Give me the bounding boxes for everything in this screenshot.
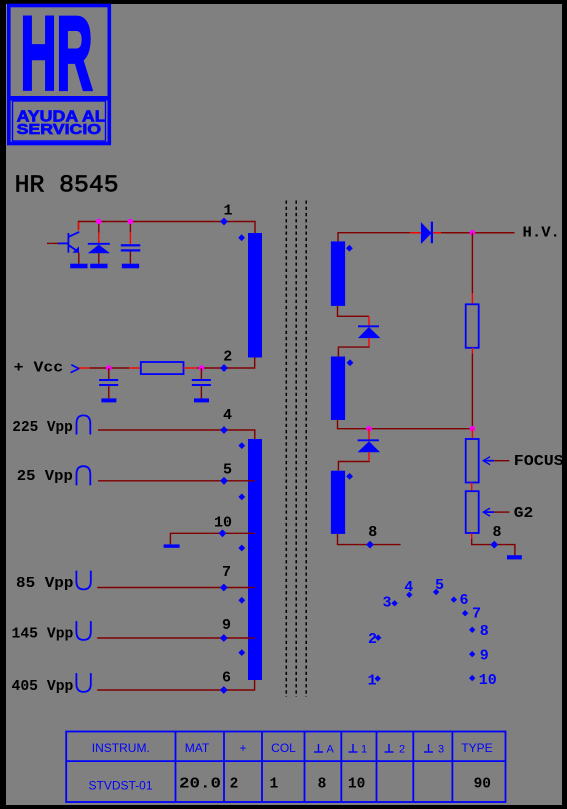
wire tap overlaps on W2	[248, 481, 255, 638]
svg-text:225 Vpp: 225 Vpp	[12, 420, 73, 436]
wire tap pin9	[97, 637, 255, 639]
wire W3 bottom to D3	[338, 306, 370, 326]
ground under Q1	[70, 264, 87, 269]
table header gnd 3	[424, 743, 444, 755]
svg-text:1: 1	[367, 672, 376, 689]
transistor Q1	[47, 232, 79, 264]
pinout pin 7	[462, 605, 481, 622]
table header MAT	[185, 741, 210, 755]
phase dot W5	[346, 473, 353, 480]
svg-text:20.0: 20.0	[179, 777, 221, 793]
junction dot vcc 1	[106, 365, 112, 371]
table header gnd 2	[385, 743, 406, 755]
svg-text:MAT: MAT	[185, 741, 210, 755]
label + Vcc	[14, 360, 64, 376]
table data 8	[318, 777, 327, 793]
table data 10	[348, 777, 365, 793]
svg-text:4: 4	[404, 579, 413, 596]
svg-text:1: 1	[269, 777, 278, 793]
table header INSTRUM.	[92, 741, 150, 755]
resistor R2 bleeder	[466, 304, 479, 348]
phase dots W2	[238, 442, 245, 656]
svg-text:8: 8	[368, 524, 377, 541]
diode D2 HV	[421, 222, 432, 245]
table grid	[66, 732, 505, 803]
focus arrow	[483, 457, 509, 465]
svg-text:COL: COL	[271, 741, 296, 755]
wire to junction	[197, 367, 201, 369]
pinout pin 5	[433, 577, 444, 595]
svg-text:2: 2	[399, 743, 405, 755]
table header gnd A	[314, 743, 335, 755]
label 85 Vpp	[16, 576, 74, 592]
node pin 4	[220, 407, 232, 434]
node pin 8 right	[490, 524, 501, 549]
resistor R3 focus	[466, 439, 479, 483]
wire D3 to W4 top	[338, 338, 369, 356]
winding W2 secondary left	[248, 439, 262, 680]
svg-text:2: 2	[230, 777, 239, 793]
svg-text:10: 10	[479, 672, 497, 689]
node pin 7	[220, 564, 231, 591]
svg-text:25 Vpp: 25 Vpp	[17, 469, 73, 485]
svg-text:STVDST-01: STVDST-01	[88, 779, 152, 793]
phase dot W3	[346, 245, 353, 252]
wire red after resistor	[184, 367, 198, 369]
logo HR box	[7, 6, 111, 144]
svg-text:145 Vpp: 145 Vpp	[12, 627, 74, 643]
node pin 2	[220, 348, 232, 372]
svg-text:TYPE: TYPE	[461, 741, 492, 755]
table header plus	[239, 741, 246, 755]
table header gnd 1	[349, 743, 368, 755]
waveform U 6	[76, 673, 90, 692]
wire vcc red segment	[79, 367, 90, 369]
logo text SERVICIO	[17, 121, 102, 138]
svg-text:HR 8545: HR 8545	[15, 173, 119, 200]
label 225 Vpp	[12, 420, 73, 436]
svg-text:5: 5	[435, 577, 444, 594]
wire tap pin6	[97, 680, 254, 690]
wire red before HV diode	[410, 232, 421, 234]
svg-text:1: 1	[361, 743, 367, 755]
wire R3 to R4	[471, 483, 473, 492]
termination bar pin10	[164, 544, 180, 547]
junction dot vcc 2	[199, 365, 205, 371]
svg-text:2: 2	[368, 631, 377, 648]
svg-text:8: 8	[318, 777, 327, 793]
svg-text:H.V.: H.V.	[523, 225, 560, 241]
wire tap pin5	[98, 480, 255, 482]
svg-text:SERVICIO: SERVICIO	[17, 121, 102, 138]
svg-text:9: 9	[222, 617, 231, 634]
wire W3 top to diode	[338, 233, 515, 242]
core dashed lines	[286, 201, 306, 698]
svg-text:8: 8	[480, 623, 489, 640]
winding W1 primary	[248, 233, 262, 358]
waveform hump 5	[77, 466, 91, 485]
svg-text:90: 90	[474, 777, 491, 793]
svg-text:9: 9	[480, 648, 489, 665]
node pin 9	[220, 617, 231, 642]
svg-text:4: 4	[223, 407, 232, 424]
pinout pin 9	[469, 648, 489, 665]
label 25 Vpp	[17, 469, 73, 485]
label H.V.	[523, 225, 560, 241]
svg-text:HR: HR	[21, 0, 93, 112]
svg-text:G2: G2	[514, 506, 534, 522]
wire red after HV diode	[433, 232, 441, 234]
wire red before resistor	[129, 367, 141, 369]
svg-text:A: A	[327, 743, 335, 755]
wire R4 to pin8 right and ground	[472, 533, 515, 555]
table data 1	[269, 777, 278, 793]
node pin 6	[220, 670, 231, 694]
node pin 5	[220, 461, 232, 484]
logo text AYUDA AL	[17, 108, 106, 125]
pinout pin 8	[469, 623, 489, 640]
title HR 8545	[15, 173, 119, 200]
wire red junction to R3	[471, 429, 473, 439]
svg-text:405 Vpp: 405 Vpp	[12, 679, 74, 695]
wire pin2 from W1 bottom	[201, 358, 254, 369]
phase dot W4	[347, 359, 354, 366]
logo HR letters	[21, 0, 93, 112]
table data 2	[230, 777, 239, 793]
ground under C3	[194, 398, 209, 402]
pinout pin 4	[404, 579, 413, 598]
diode D1	[88, 244, 110, 264]
wire HV down to R2	[471, 233, 473, 305]
svg-text:FOCUS: FOCUS	[514, 454, 564, 470]
input chevron	[71, 365, 79, 373]
svg-text:7: 7	[222, 564, 231, 581]
label 405 Vpp	[12, 679, 74, 695]
svg-text:INSTRUM.: INSTRUM.	[92, 741, 150, 755]
wire red collector drop	[78, 222, 80, 231]
svg-text:3: 3	[438, 743, 444, 755]
svg-text:1: 1	[223, 203, 232, 220]
capacitor C3	[192, 368, 211, 398]
svg-text:3: 3	[382, 595, 391, 612]
junction dot 2	[128, 219, 134, 225]
svg-text:10: 10	[214, 514, 232, 531]
junction dot divider right	[470, 426, 476, 432]
node pin 1	[220, 203, 232, 226]
wire D4 to W5 top	[338, 452, 369, 471]
svg-text:+: +	[239, 741, 246, 755]
winding W5 HV bottom	[331, 471, 345, 534]
wire vcc to resistor	[89, 367, 129, 369]
label FOCUS	[514, 454, 564, 470]
svg-text:+ Vcc: + Vcc	[14, 360, 64, 376]
junction dot HV	[470, 230, 476, 236]
table data 20.0	[179, 777, 221, 793]
capacitor C1	[121, 244, 141, 264]
table data STVDST-01	[88, 779, 152, 793]
table header COL	[271, 741, 296, 755]
pinout pin 10	[469, 672, 497, 689]
wire to HV junction	[445, 232, 515, 234]
svg-text:85 Vpp: 85 Vpp	[16, 576, 74, 592]
wire tap pin7	[97, 587, 255, 589]
label G2	[514, 506, 534, 522]
diode D4	[358, 440, 380, 452]
ground under D1	[90, 264, 107, 269]
svg-text:6: 6	[222, 670, 231, 687]
wire W4 bottom to junction row	[338, 420, 473, 429]
ground right	[507, 555, 522, 559]
resistor R4 g2	[466, 491, 479, 533]
capacitor C2	[99, 368, 118, 398]
ground under C2	[101, 398, 116, 402]
resistor R1 vcc	[141, 362, 184, 374]
pinout pin 2	[368, 631, 381, 648]
waveform hump 4	[77, 415, 91, 434]
wire diode drop	[98, 222, 100, 244]
pinout pin 3	[382, 595, 397, 612]
wire tap pin10	[170, 533, 254, 544]
phase dot W1	[238, 234, 245, 241]
table data 90	[474, 777, 491, 793]
svg-text:10: 10	[348, 777, 365, 793]
wire R2 to divider junction	[471, 348, 473, 429]
label 145 Vpp	[12, 627, 74, 643]
junction dot divider left	[366, 426, 372, 432]
winding W3 HV top	[331, 241, 345, 306]
winding W4 HV mid	[331, 357, 345, 421]
svg-text:5: 5	[223, 461, 232, 478]
svg-text:7: 7	[472, 605, 481, 622]
node pin 8 left	[366, 524, 377, 549]
wire top bus pin1	[79, 222, 256, 234]
svg-text:6: 6	[459, 592, 468, 609]
svg-text:2: 2	[223, 348, 232, 365]
node pin 10	[214, 514, 232, 537]
pinout pin 1	[367, 672, 380, 689]
junction dot 1	[96, 219, 102, 225]
ground under C1	[122, 264, 139, 269]
g2 arrow	[483, 508, 509, 516]
pinout pin 6	[451, 592, 469, 609]
wire W5 bottom pin8 left	[338, 534, 401, 545]
svg-text:8: 8	[492, 524, 501, 541]
diode D3	[358, 326, 381, 338]
wire cap drop	[129, 222, 131, 245]
wire tap pin4	[98, 430, 255, 439]
wire red to D4	[368, 429, 370, 440]
waveform U 7	[76, 571, 90, 590]
waveform U 9	[76, 621, 90, 640]
table header TYPE	[461, 741, 492, 755]
